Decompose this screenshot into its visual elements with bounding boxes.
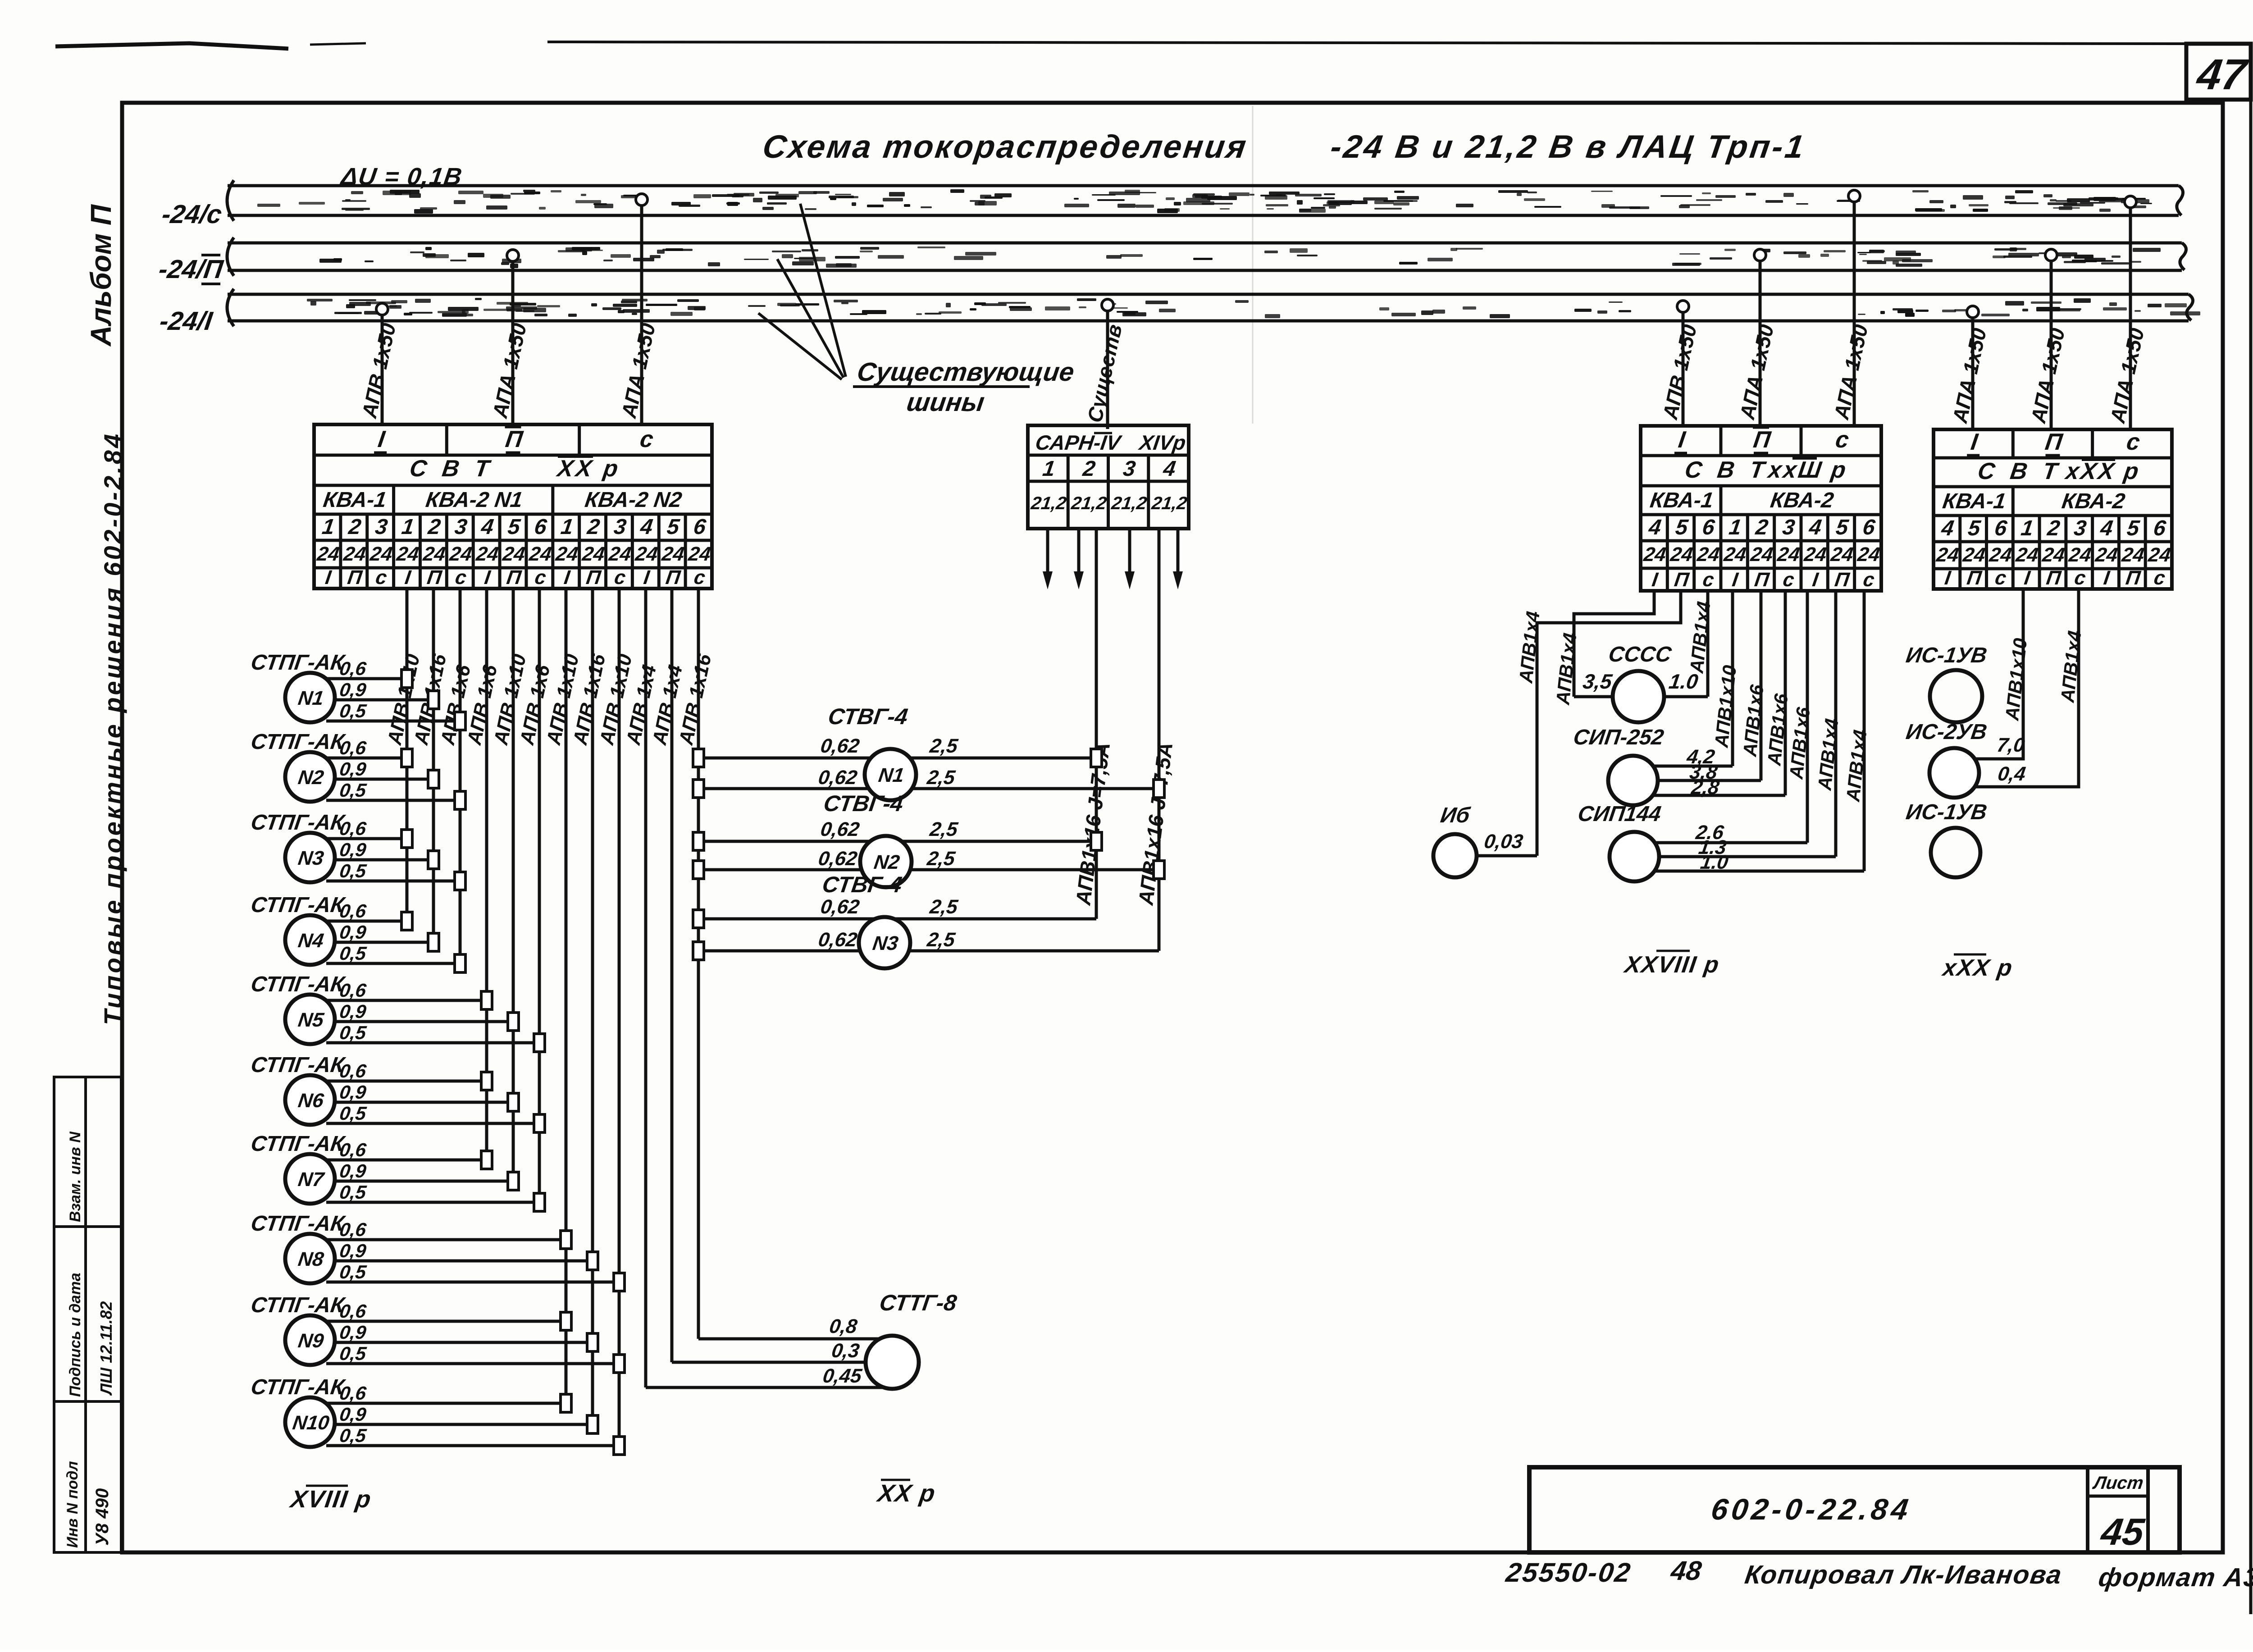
svg-text:СТПГ-АК: СТПГ-АК: [249, 1132, 347, 1156]
svg-text:24: 24: [607, 543, 633, 565]
svg-text:N1: N1: [296, 687, 325, 709]
svg-text:СТТГ-8: СТТГ-8: [878, 1290, 958, 1315]
svg-text:24: 24: [421, 543, 447, 565]
svg-text:КВА-2 N2: КВА-2 N2: [584, 488, 684, 512]
svg-text:0,5: 0,5: [338, 1182, 368, 1203]
svg-text:0,5: 0,5: [338, 943, 368, 964]
svg-text:0,5: 0,5: [338, 780, 368, 801]
svg-text:Иб: Иб: [1439, 803, 1472, 827]
svg-text:21,2: 21,2: [1110, 493, 1148, 513]
svg-text:N4: N4: [296, 930, 325, 952]
svg-text:У8 490: У8 490: [92, 1488, 112, 1546]
svg-text:0,62: 0,62: [817, 929, 859, 951]
svg-text:С В Т: С В Т: [1976, 458, 2063, 484]
svg-text:24: 24: [448, 543, 474, 565]
svg-text:-24/I: -24/I: [158, 306, 215, 336]
svg-text:0,62: 0,62: [819, 896, 861, 918]
svg-text:N2: N2: [872, 851, 901, 873]
svg-text:СТПГ-АК: СТПГ-АК: [249, 1211, 347, 1236]
svg-text:2,5: 2,5: [928, 818, 960, 840]
svg-text:24: 24: [315, 543, 341, 565]
svg-text:602-0-22.84: 602-0-22.84: [1709, 1493, 1914, 1526]
svg-text:Типовые проектные решения 6: Типовые проектные решения 602-0-2.84: [99, 432, 127, 1025]
svg-text:СТВГ-4: СТВГ-4: [821, 872, 903, 897]
svg-text:ХХVIII р: ХХVIII р: [1622, 952, 1721, 978]
svg-text:21,2: 21,2: [1150, 493, 1188, 513]
svg-text:Схема токораспределения: Схема токораспределения: [761, 129, 1250, 165]
svg-text:СТВГ-4: СТВГ-4: [822, 791, 905, 816]
svg-text:САРН-IV: САРН-IV: [1034, 431, 1124, 454]
svg-text:СТПГ-АК: СТПГ-АК: [249, 1053, 347, 1077]
svg-text:N2: N2: [296, 767, 325, 789]
svg-text:ХVIII р: ХVIII р: [287, 1486, 373, 1513]
svg-text:ХХ р: ХХ р: [555, 456, 623, 482]
svg-text:СТПГ-АК: СТПГ-АК: [249, 810, 347, 835]
svg-text:N8: N8: [296, 1248, 325, 1270]
svg-text:ИС-1УВ: ИС-1УВ: [1904, 800, 1988, 824]
svg-text:24: 24: [580, 543, 606, 565]
svg-text:0,5: 0,5: [338, 1425, 368, 1446]
svg-text:КВА-1: КВА-1: [1941, 489, 2007, 513]
svg-text:N9: N9: [296, 1330, 325, 1352]
svg-text:хХХ р: хХХ р: [1940, 955, 2015, 981]
svg-text:хХХ р: хХХ р: [2063, 458, 2142, 484]
svg-text:24: 24: [1775, 543, 1801, 566]
svg-text:2,5: 2,5: [926, 929, 957, 951]
svg-text:0,5: 0,5: [338, 860, 368, 881]
svg-text:0,9: 0,9: [338, 1404, 368, 1425]
svg-text:КВА-2: КВА-2: [1769, 488, 1835, 512]
svg-text:0,9: 0,9: [338, 758, 368, 780]
svg-text:С В Т: С В Т: [1683, 457, 1770, 483]
svg-text:24: 24: [660, 543, 686, 565]
svg-text:КВА-1: КВА-1: [1649, 488, 1715, 512]
svg-text:2,5: 2,5: [926, 767, 957, 789]
svg-text:0,5: 0,5: [338, 1022, 368, 1043]
svg-text:0,9: 0,9: [338, 1001, 368, 1022]
svg-text:0,62: 0,62: [819, 818, 861, 840]
svg-text:2,5: 2,5: [928, 735, 960, 757]
svg-text:7,0: 7,0: [1996, 734, 2026, 756]
svg-text:0,5: 0,5: [338, 700, 368, 721]
svg-text:24: 24: [634, 543, 659, 565]
svg-text:ХIVр: ХIVр: [1137, 431, 1187, 454]
svg-text:0,5: 0,5: [338, 1103, 368, 1124]
svg-text:0,8: 0,8: [828, 1315, 858, 1337]
svg-text:24: 24: [1961, 544, 1987, 566]
svg-text:25550-02: 25550-02: [1504, 1557, 1633, 1588]
svg-text:ЛШ 12.11.82: ЛШ 12.11.82: [97, 1301, 115, 1396]
svg-text:24: 24: [1722, 543, 1748, 566]
svg-text:24: 24: [1988, 544, 2013, 566]
svg-text:ХХ р: ХХ р: [875, 1480, 937, 1507]
svg-text:N1: N1: [877, 764, 905, 786]
svg-text:СТПГ-АК: СТПГ-АК: [249, 650, 347, 675]
svg-text:Лист: Лист: [2091, 1473, 2145, 1493]
svg-text:2,5: 2,5: [926, 848, 957, 870]
svg-text:1.0: 1.0: [1699, 851, 1730, 873]
svg-text:СИП-252: СИП-252: [1572, 725, 1665, 749]
svg-text:Подпись и дата: Подпись и дата: [67, 1273, 84, 1397]
svg-text:24: 24: [1749, 543, 1774, 566]
svg-text:СТПГ-АК: СТПГ-АК: [249, 730, 347, 754]
svg-text:48: 48: [1669, 1555, 1704, 1586]
svg-text:0,03: 0,03: [1483, 831, 1525, 853]
svg-text:24: 24: [2041, 544, 2066, 566]
svg-text:21,2: 21,2: [1029, 493, 1067, 513]
svg-text:24: 24: [2120, 544, 2146, 566]
svg-text:0,9: 0,9: [338, 1160, 368, 1182]
svg-text:N10: N10: [291, 1412, 331, 1434]
svg-text:2,8: 2,8: [1690, 776, 1721, 799]
svg-text:0,62: 0,62: [819, 735, 861, 757]
svg-text:N5: N5: [296, 1009, 325, 1031]
svg-text:24: 24: [395, 543, 420, 565]
svg-text:формат А3: формат А3: [2097, 1563, 2253, 1592]
svg-text:24: 24: [1856, 543, 1881, 566]
svg-text:шины: шины: [905, 388, 986, 417]
svg-text:0,9: 0,9: [338, 1322, 368, 1343]
svg-text:0,9: 0,9: [338, 839, 368, 860]
svg-text:24: 24: [501, 543, 527, 565]
svg-text:24: 24: [2014, 544, 2040, 566]
svg-text:Взам. инв N: Взам. инв N: [67, 1131, 84, 1222]
svg-text:0,45: 0,45: [821, 1365, 864, 1387]
svg-text:ИС-1УВ: ИС-1УВ: [1904, 643, 1988, 667]
svg-text:24: 24: [687, 543, 712, 565]
svg-text:СИП144: СИП144: [1576, 802, 1662, 826]
svg-text:24: 24: [2093, 544, 2119, 566]
svg-text:СТПГ-АК: СТПГ-АК: [249, 1375, 347, 1399]
svg-text:24: 24: [1642, 543, 1668, 566]
svg-text:24: 24: [368, 543, 394, 565]
svg-text:24: 24: [1935, 544, 1961, 566]
svg-text:-24/П: -24/П: [157, 255, 225, 284]
svg-text:N6: N6: [296, 1090, 325, 1112]
svg-text:24: 24: [1802, 543, 1828, 566]
svg-text:24: 24: [554, 543, 579, 565]
svg-text:0,9: 0,9: [338, 679, 368, 700]
svg-text:0,5: 0,5: [338, 1261, 368, 1282]
svg-text:Инв N подл: Инв N подл: [64, 1461, 81, 1548]
svg-text:0,9: 0,9: [338, 1240, 368, 1261]
svg-text:24: 24: [2067, 544, 2093, 566]
svg-text:24: 24: [2147, 544, 2172, 566]
svg-text:КВА-1: КВА-1: [322, 488, 388, 512]
svg-text:СТПГ-АК: СТПГ-АК: [249, 972, 347, 996]
svg-text:24: 24: [1669, 543, 1694, 566]
svg-text:0,5: 0,5: [338, 1343, 368, 1364]
svg-text:ИС-2УВ: ИС-2УВ: [1904, 720, 1988, 744]
svg-text:21,2: 21,2: [1070, 493, 1108, 513]
svg-text:СССС: СССС: [1607, 642, 1673, 666]
svg-text:СТВГ-4: СТВГ-4: [826, 704, 909, 729]
svg-text:45: 45: [2098, 1511, 2147, 1553]
svg-text:24: 24: [528, 543, 553, 565]
svg-text:Копировал Лк-Иванова: Копировал Лк-Иванова: [1743, 1560, 2064, 1589]
svg-text:3,5: 3,5: [1582, 670, 1614, 693]
svg-text:24: 24: [474, 543, 500, 565]
svg-text:47: 47: [2194, 50, 2251, 98]
svg-text:N3: N3: [871, 932, 899, 954]
svg-text:СТПГ-АК: СТПГ-АК: [249, 1293, 347, 1317]
svg-text:24: 24: [1829, 543, 1855, 566]
svg-text:2,5: 2,5: [928, 896, 960, 918]
svg-text:Существующие: Существующие: [855, 357, 1076, 387]
svg-text:0,62: 0,62: [817, 767, 859, 789]
svg-text:24: 24: [1695, 543, 1721, 566]
svg-text:N3: N3: [296, 847, 325, 869]
svg-text:КВА-2: КВА-2: [2060, 489, 2126, 513]
svg-text:0,62: 0,62: [817, 848, 859, 870]
svg-text:КВА-2 N1: КВА-2 N1: [424, 488, 524, 512]
svg-text:Альбом П: Альбом П: [85, 204, 117, 347]
svg-text:0,3: 0,3: [830, 1340, 861, 1362]
svg-text:С В Т: С В Т: [408, 456, 495, 482]
svg-text:24: 24: [342, 543, 367, 565]
svg-text:ххШ р: ххШ р: [1765, 457, 1849, 483]
svg-text:СТПГ-АК: СТПГ-АК: [249, 893, 347, 917]
svg-text:-24/с: -24/с: [160, 200, 223, 229]
svg-text:0,9: 0,9: [338, 922, 368, 943]
svg-text:0,9: 0,9: [338, 1082, 368, 1103]
svg-text:0,4: 0,4: [1997, 763, 2027, 785]
svg-text:N7: N7: [296, 1168, 326, 1191]
svg-text:-24 В и 21,2 В в ЛАЦ Трп-: -24 В и 21,2 В в ЛАЦ Трп-1: [1328, 129, 1808, 165]
